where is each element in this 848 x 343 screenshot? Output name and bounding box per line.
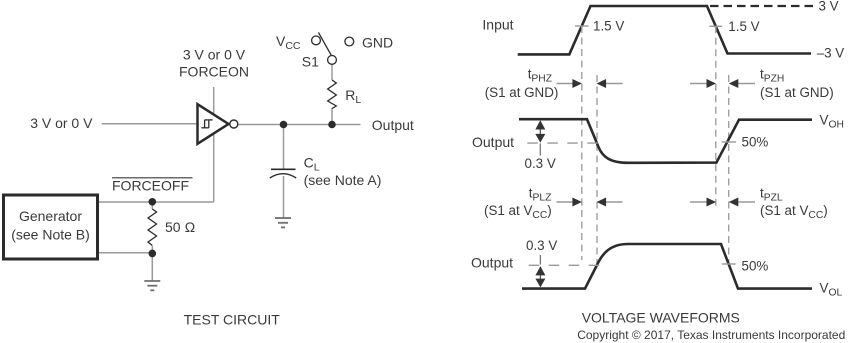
svg-text:Generator: Generator [19, 208, 82, 224]
svg-text:VOL: VOL [820, 281, 843, 299]
svg-text:S1: S1 [302, 54, 319, 70]
svg-text:0.3 V: 0.3 V [526, 238, 557, 253]
svg-text:0.3 V: 0.3 V [525, 156, 556, 171]
svg-text:Output: Output [471, 255, 513, 271]
svg-text:3 V or 0 V: 3 V or 0 V [30, 115, 93, 131]
svg-text:(S1 at GND): (S1 at GND) [485, 85, 559, 100]
svg-text:Output: Output [472, 134, 514, 150]
svg-text:3 V or 0 V: 3 V or 0 V [183, 47, 246, 63]
svg-text:VOLTAGE WAVEFORMS: VOLTAGE WAVEFORMS [582, 309, 740, 325]
svg-text:(see Note B): (see Note B) [11, 226, 90, 242]
svg-text:GND: GND [362, 35, 393, 51]
svg-text:tPZH: tPZH [760, 67, 784, 85]
svg-text:–3 V: –3 V [817, 46, 845, 61]
svg-text:Copyright © 2017, Texas Instru: Copyright © 2017, Texas Instruments Inco… [577, 328, 845, 342]
svg-text:FORCEOFF: FORCEOFF [112, 178, 189, 194]
svg-text:tPLZ: tPLZ [529, 185, 552, 203]
svg-text:50%: 50% [742, 258, 769, 273]
svg-text:CL: CL [304, 155, 320, 174]
svg-text:1.5 V: 1.5 V [593, 19, 624, 34]
svg-text:FORCEON: FORCEON [179, 63, 249, 79]
svg-text:Output: Output [372, 117, 414, 133]
svg-text:VOH: VOH [820, 113, 844, 131]
svg-text:RL: RL [345, 87, 361, 106]
svg-text:(S1 at GND): (S1 at GND) [760, 85, 834, 100]
svg-text:1.5 V: 1.5 V [728, 19, 759, 34]
svg-text:(see Note A): (see Note A) [304, 172, 382, 188]
svg-text:50 Ω: 50 Ω [165, 219, 195, 235]
svg-text:50%: 50% [742, 135, 769, 150]
svg-text:Input: Input [482, 17, 513, 33]
svg-text:(S1 at VCC): (S1 at VCC) [484, 203, 552, 221]
svg-text:TEST CIRCUIT: TEST CIRCUIT [184, 311, 281, 327]
svg-text:VCC: VCC [276, 33, 301, 52]
svg-text:(S1 at VCC): (S1 at VCC) [760, 203, 828, 221]
svg-text:3 V: 3 V [819, 0, 839, 14]
svg-text:tPZL: tPZL [760, 185, 783, 203]
svg-text:tPHZ: tPHZ [528, 67, 552, 85]
